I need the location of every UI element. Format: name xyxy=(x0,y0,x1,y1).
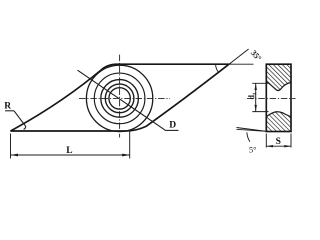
svg-text:35°: 35° xyxy=(249,49,263,63)
svg-text:5°: 5° xyxy=(249,145,256,154)
svg-text:D: D xyxy=(169,121,176,131)
svg-text:R: R xyxy=(4,102,11,112)
svg-text:L: L xyxy=(66,146,72,156)
svg-text:1: 1 xyxy=(252,92,258,95)
svg-text:S: S xyxy=(276,137,281,147)
